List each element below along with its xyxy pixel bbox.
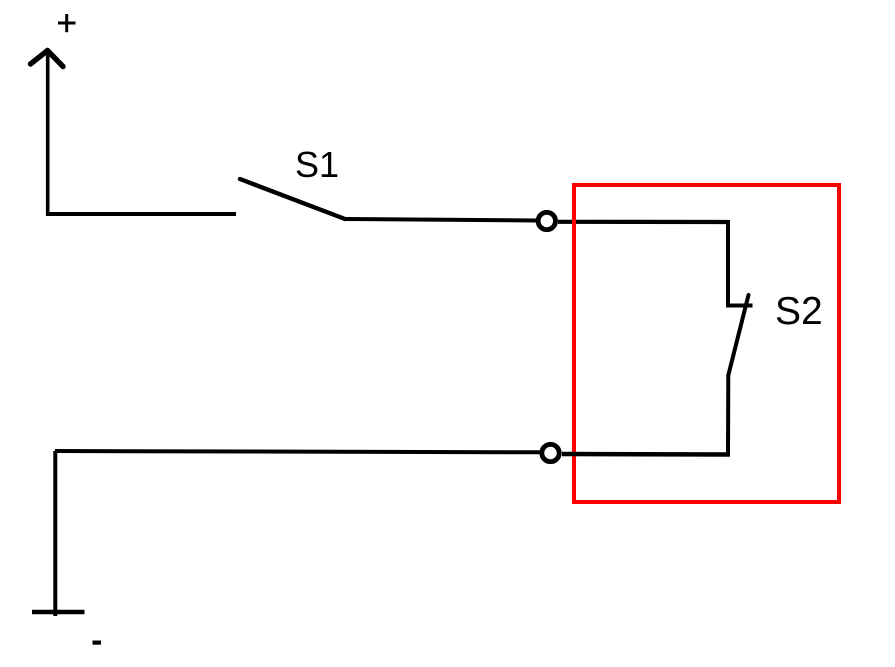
switch S2 blade [729,295,749,375]
ground bar [32,610,85,614]
wire top terminal into box [558,220,728,224]
S2 fixed contact bar [726,304,753,308]
wire down to ground [53,451,57,616]
wire S1 to top terminal [345,219,537,221]
wire bottom terminal to left [55,451,540,452]
positive supply arrow [31,51,64,215]
wire from supply to S1 [46,212,236,216]
plus label of supply [58,14,76,32]
switch S1 blade [240,179,345,219]
wire S2 down to bottom [726,375,730,457]
svg-text:S2: S2 [775,290,823,333]
bottom terminal node [542,444,559,461]
wire down to S2 [726,220,730,306]
svg-text:S1: S1 [295,144,339,185]
top terminal node [538,212,555,229]
wire bottom corner to bottom terminal [562,452,730,457]
red highlight box around S2 [574,185,839,502]
minus label of supply [93,640,102,644]
